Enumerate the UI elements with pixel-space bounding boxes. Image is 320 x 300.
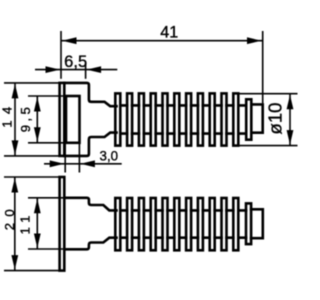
short end rib (lower view) [246,203,251,244]
rib 4 (top view) [151,93,156,145]
dimension line 3,0 [44,163,122,165]
arrowhead 6,5 right (outside, points left) [87,66,102,73]
extension line top of 14 [4,82,65,84]
arrowhead dia10 bottom [287,130,294,145]
dimension line 11 [36,198,38,249]
rib 1 (lower view) [115,198,120,250]
rib 1 (top view) [115,93,120,145]
short end rib (top view) [246,99,251,139]
end tip cylinder (lower view) [251,209,263,238]
extension line bottom of 9,5 [28,142,67,144]
rib 8 (top view) [198,93,203,145]
extension line bottom of dia 10 [238,145,297,147]
arrowhead 41 left [62,37,77,44]
inner recess rectangle (top view) [66,96,80,143]
extension line top of dia 10 [238,93,297,95]
svg-text:3,0: 3,0 [100,147,119,163]
svg-text:14: 14 [0,107,14,128]
extension line right of 6,5 [85,64,87,79]
dimension line 6,5 [35,69,117,71]
arrowhead 3,0 left (outside, points right) [50,160,64,167]
extension line left of 41/6,5 [60,31,62,79]
rib 2 (lower view) [127,198,132,250]
svg-text:41: 41 [160,24,178,42]
arrowhead 11 top [34,199,41,214]
body block upper outline (lower view) [64,198,116,211]
extension line left of 3,0 [64,144,66,173]
end tip cylinder (top view) [251,104,262,132]
extension line top of 11 [28,197,65,199]
flange plate (top view) [60,83,65,156]
dimension line dia 10 [289,94,291,146]
svg-text:ø10: ø10 [264,103,285,135]
rib 10 (top view) [222,93,227,145]
svg-text:6,5: 6,5 [64,53,87,71]
valley lines between ribs, top side (top view) [120,104,246,107]
body block lower outline (lower view) [64,238,116,250]
rib 4 (lower view) [151,198,156,250]
rib 11 (top view) [233,93,238,145]
valley lines between ribs, bottom side (top view) [120,132,246,135]
rib 9 (lower view) [210,198,215,250]
flange plate (lower view) [60,177,65,271]
extension line right of 3,0 [78,144,80,173]
dimension line 9,5 [36,96,38,143]
arrowhead 14 bottom [12,140,19,155]
dimension line 14 [14,83,16,156]
arrowhead 20 top [11,178,18,193]
arrowhead 14 top [12,84,19,99]
extension line bottom of 11 [28,248,65,250]
rib 11 (lower view) [233,198,238,250]
arrowhead dia10 top [287,95,294,110]
arrowhead 41 right [247,37,262,44]
rib 3 (lower view) [139,198,144,250]
body block lower outline (top view) [64,133,116,156]
extension line right of 41 (drops to tip) [262,31,264,103]
body block upper outline (top view) [64,83,116,106]
extension line bottom of 14 [4,155,65,157]
arrowhead 3,0 right (outside, points left) [80,160,95,167]
svg-text:11: 11 [17,216,32,235]
rib 3 (top view) [139,93,144,145]
arrowhead 9,5 top [34,97,41,112]
arrowhead 11 bottom [34,234,41,249]
rib 9 (top view) [210,93,215,145]
extension line top of 20 [4,176,65,178]
arrowhead 9,5 bottom [34,127,41,142]
rib 8 (lower view) [198,198,203,250]
rib 10 (lower view) [222,198,227,250]
extension line top of 9,5 [28,95,67,97]
valley lines between ribs, top side (lower view) [120,209,246,212]
rib 6 (lower view) [174,198,179,250]
rib 7 (top view) [186,93,191,145]
arrowhead 20 bottom [11,255,18,270]
rib 5 (top view) [163,93,168,145]
arrowhead 6,5 left (outside, points right) [46,66,61,73]
rib 7 (lower view) [186,198,191,250]
extension line bottom of 20 [4,270,65,272]
rib 5 (lower view) [163,198,168,250]
dimension line 20 [14,177,16,271]
rib 2 (top view) [127,93,132,145]
valley lines between ribs, bottom side (lower view) [120,236,246,239]
dimension line 41 [61,40,263,42]
svg-text:9,5: 9,5 [18,107,33,132]
rib 6 (top view) [174,93,179,145]
